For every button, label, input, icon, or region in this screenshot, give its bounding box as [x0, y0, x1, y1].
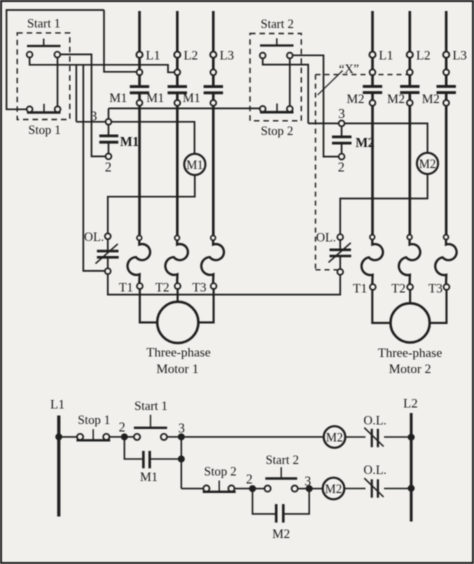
motor terminal circle under L1 (right) — [370, 284, 376, 290]
wire: jumper Start1-right to Stop1-right — [57, 58, 59, 107]
pushbutton Start 2 (NO) actuator — [260, 44, 294, 46]
svg-text:M2: M2 — [325, 482, 342, 496]
svg-text:2: 2 — [338, 160, 345, 175]
svg-text:M2: M2 — [419, 157, 436, 171]
dashed box X around starter 2 — [316, 74, 410, 76]
power line L1 (motor 1 phase) — [138, 11, 141, 52]
pushbutton station 2 dashed enclosure — [250, 34, 301, 121]
svg-text:Start 1: Start 1 — [27, 17, 60, 31]
terminal L2 lower (right) — [407, 69, 413, 75]
rung 2 wire stop2-node2' — [235, 488, 253, 490]
terminal below M1 contact on L2 — [174, 100, 180, 106]
wire: T2 to motor 2 — [409, 290, 411, 304]
power line L3 (motor 1 phase) — [212, 11, 215, 52]
svg-text:L3: L3 — [452, 48, 466, 63]
wire: T3 to motor 1 — [198, 289, 213, 322]
motor terminal circle under L2 — [175, 283, 181, 289]
rail L2 (ladder) — [410, 413, 413, 522]
terminal L2 upper — [174, 52, 180, 58]
wire L3 down to overload heater (right) — [445, 106, 448, 235]
junction L1-rung1 — [56, 434, 62, 440]
power line L2 (motor 2 phase) — [408, 11, 411, 52]
svg-text:2: 2 — [105, 159, 112, 174]
contact M1 on L1 (NO power contact) — [138, 75, 141, 86]
svg-text:T3: T3 — [428, 281, 442, 295]
overload contact O.L. rung 1 — [371, 429, 373, 447]
svg-text:“X”: “X” — [339, 62, 359, 76]
power line L2 (motor 1 phase) — [176, 11, 179, 52]
pushbutton Start 1 terminals — [27, 52, 33, 58]
rung 1 wire coil-OL — [345, 436, 365, 438]
motor terminal circle under L1 — [137, 283, 143, 289]
leader line for X — [318, 71, 343, 95]
wire: riser A from Start1-left wire down to node 3 line — [75, 65, 77, 122]
wire: Start1-right over and down to coil terminal 2 — [60, 54, 105, 156]
node 3 junction (ladder) — [178, 434, 184, 440]
coil M2 rung 1 (ladder) — [324, 426, 346, 448]
rung 2 wire left segment — [181, 488, 203, 490]
rung 2 wire node3'-coil — [309, 488, 323, 490]
motor terminal circle under L2 (right) — [407, 284, 413, 290]
coil M2 rung 2 (ladder) — [323, 478, 345, 500]
terminal L3 lower — [210, 69, 216, 75]
wire L3 to disconnect terminal (right) — [445, 58, 448, 70]
pilot device M2 (circle) — [417, 153, 438, 174]
svg-text:3: 3 — [338, 106, 345, 121]
svg-text:3: 3 — [178, 420, 185, 435]
terminal below M1 contact on L1 — [137, 100, 143, 106]
motor terminal circle under L3 — [211, 283, 217, 289]
rung 2 wire start2-node3' — [298, 488, 309, 490]
wire L1 to disconnect terminal (right) — [371, 58, 374, 70]
svg-text:3: 3 — [305, 473, 312, 488]
holding contact M1 branch wire — [124, 437, 143, 459]
rung 2 wire coil-OL — [344, 488, 365, 490]
pushbutton station 1 dashed enclosure — [17, 33, 70, 120]
holding contact M1 branch wire right — [150, 458, 182, 460]
overload heater element on L1 (right) — [370, 235, 375, 240]
overload OL2 heater contact — [337, 234, 343, 240]
svg-text:M1: M1 — [146, 91, 164, 105]
rung 1 wire OL-L2 — [384, 436, 411, 438]
svg-text:M1: M1 — [186, 158, 203, 172]
svg-text:Start 1: Start 1 — [134, 399, 167, 413]
svg-text:M1: M1 — [183, 91, 201, 105]
wire L2 to disconnect terminal — [176, 58, 179, 70]
wire: OL1 return to OL2 (long bottom horizontal) — [108, 274, 340, 295]
svg-text:L1: L1 — [50, 397, 64, 412]
terminal L2 upper (right) — [407, 52, 413, 58]
wire L2 down to overload heater — [176, 106, 179, 236]
svg-text:OL.: OL. — [84, 230, 104, 244]
pushbutton Stop 1 (NC) actuator — [27, 111, 61, 114]
rung 1 wire start1-node3 — [167, 436, 181, 438]
wire: M1 pilot bottom to OL1 top — [108, 175, 195, 234]
svg-text:L2: L2 — [403, 396, 417, 411]
svg-text:3: 3 — [90, 109, 97, 124]
coil M2 (contactor coil) — [332, 135, 352, 138]
rung 2 wire OL-L2 — [384, 488, 411, 490]
overload heater element on L1 — [137, 236, 142, 241]
wire: L1 feed from top line to Stop 1 (outer loop left) — [7, 10, 105, 109]
svg-text:Three-phase: Three-phase — [378, 345, 442, 360]
power line L3 (motor 2 phase) — [445, 11, 448, 52]
node 3 wire (control) to M1 pilot — [76, 121, 105, 123]
junction rung1-L2 — [408, 434, 414, 440]
contact M2 on L3 (NO power contact) — [445, 75, 448, 86]
overload contact O.L. rung 2 — [371, 479, 373, 497]
svg-text:L2: L2 — [416, 48, 430, 63]
svg-text:M2: M2 — [326, 431, 343, 445]
svg-text:2: 2 — [246, 472, 253, 487]
wire L3 down to overload heater — [212, 106, 215, 236]
wire: T2 to motor 1 — [177, 289, 179, 302]
rung 1 wire left segment — [59, 436, 77, 438]
pushbutton Stop 1 (ladder NC) — [77, 434, 83, 440]
terminal L3 upper — [210, 52, 216, 58]
wire: Start1-left to L2 tap (node runs right) — [30, 58, 175, 73]
terminal L3 lower (right) — [443, 69, 449, 75]
rung 2 wire node2'-start2 — [253, 488, 265, 490]
wire L1 down to overload heater — [138, 106, 141, 236]
power line L1 (motor 2 phase) — [371, 11, 374, 52]
holding contact M2 branch wire right — [283, 489, 309, 514]
wire: Start2-left down to node 3' line — [263, 58, 309, 123]
node 3' terminal — [339, 121, 345, 127]
pushbutton Stop 1 terminals — [27, 106, 33, 112]
coil M2 terminal 2 — [339, 154, 345, 160]
svg-text:T1: T1 — [353, 281, 367, 295]
terminal L3 upper (right) — [443, 52, 449, 58]
svg-text:Stop 2: Stop 2 — [261, 124, 294, 138]
pilot device M1 (circle) — [184, 154, 205, 175]
pushbutton Stop 2 (ladder NC) — [203, 485, 209, 491]
wire: interlock line from node 3 to Stop 2 (long horizontal) — [109, 107, 261, 109]
wire L1 down to overload heater (right) — [371, 106, 374, 235]
coil M1 terminal 2 — [106, 154, 112, 160]
svg-text:M2: M2 — [272, 527, 290, 541]
contact M1 on L2 (NO power contact) — [176, 75, 179, 86]
svg-text:O.L.: O.L. — [363, 463, 386, 477]
terminal below M2 contact on L1 — [370, 100, 376, 106]
svg-text:Stop 1: Stop 1 — [28, 123, 61, 137]
motor 1 (three-phase) — [157, 302, 198, 343]
overload heater element on L3 — [211, 236, 216, 241]
svg-text:M1: M1 — [120, 134, 139, 149]
svg-text:M2: M2 — [387, 92, 405, 106]
svg-text:L2: L2 — [184, 48, 198, 63]
overload heater element on L2 — [175, 236, 180, 241]
pushbutton Start 2 terminals — [260, 53, 266, 59]
wire L3 to disconnect terminal — [212, 58, 215, 70]
rung 1 wire node3-coil — [181, 436, 323, 438]
overload OL1 heater contact — [105, 233, 111, 239]
wire: riser B from Start1-left wire down to OL1 return — [83, 65, 105, 271]
svg-text:T2: T2 — [155, 281, 169, 295]
rail L1 (ladder) — [57, 416, 60, 517]
svg-text:Motor 1: Motor 1 — [156, 361, 198, 376]
terminal below M1 contact on L3 — [210, 100, 216, 106]
motor 2 (three-phase) — [391, 303, 430, 342]
motor terminal circle under L3 (right) — [444, 284, 450, 290]
contact M2 on L2 (NO power contact) — [408, 75, 411, 86]
wire L1 to disconnect terminal — [138, 58, 141, 70]
wire: M2 pilot bottom to OL2 top — [340, 174, 427, 234]
contact M2 on L1 (NO power contact) — [371, 75, 374, 86]
wire L2 down to overload heater (right) — [408, 106, 411, 235]
wire: Start2-right over and down to coil 2 terminal — [293, 55, 339, 156]
wire: node 3 down to rung 2 — [180, 437, 182, 489]
rung 1 wire stop1-node2 — [109, 436, 124, 438]
terminal L1 upper — [136, 52, 142, 58]
pushbutton Stop 2 terminals — [260, 106, 266, 112]
overload heater element on L3 (right) — [444, 235, 449, 240]
svg-text:T1: T1 — [119, 281, 133, 295]
svg-text:OL.: OL. — [316, 231, 336, 245]
svg-text:Stop 1: Stop 1 — [78, 413, 111, 427]
terminal L1 upper (right) — [369, 52, 375, 58]
svg-text:T2: T2 — [391, 281, 405, 295]
terminal L2 lower — [174, 69, 180, 75]
svg-text:Motor 2: Motor 2 — [389, 361, 431, 376]
wire: outer loop right drop to L1 tap — [104, 10, 137, 72]
pushbutton Stop 2 (NC) actuator — [260, 111, 294, 114]
junction rung2-L2 — [408, 485, 414, 491]
node 3' junction (ladder) — [306, 486, 312, 492]
wire: node 3 riser to interlock line — [108, 108, 110, 119]
junction node3-M1 branch — [178, 456, 184, 462]
svg-text:M1: M1 — [140, 470, 158, 484]
node 3' wire to M2 pilot — [308, 122, 339, 124]
svg-text:O.L.: O.L. — [363, 413, 386, 427]
contact M2 (ladder NO holding) — [275, 504, 278, 522]
svg-text:Stop 2: Stop 2 — [204, 464, 237, 478]
pushbutton Start 1 (ladder NO) — [134, 434, 140, 440]
node 2' junction (ladder) — [250, 486, 256, 492]
wire: T1 to motor 1 — [140, 289, 157, 322]
terminal L1 lower (right) — [370, 69, 376, 75]
terminal below M2 contact on L2 — [407, 100, 413, 106]
svg-text:M2: M2 — [422, 92, 440, 106]
node 2 junction (ladder) — [121, 434, 127, 440]
svg-text:M2: M2 — [347, 92, 365, 106]
rung 1 wire node2-start1 — [124, 436, 133, 438]
pushbutton Start 1 (NO) actuator — [27, 45, 61, 47]
contact M1 (ladder NO holding) — [142, 451, 145, 468]
holding contact M2 branch wire — [253, 489, 277, 514]
svg-text:L1: L1 — [379, 48, 393, 63]
contact M1 on L3 (NO power contact) — [212, 75, 215, 86]
svg-text:Start 2: Start 2 — [261, 17, 294, 31]
svg-text:Start 2: Start 2 — [266, 453, 299, 467]
svg-text:L1: L1 — [146, 48, 160, 63]
pushbutton Start 2 (ladder NO) — [265, 486, 271, 492]
svg-text:T3: T3 — [192, 281, 206, 295]
svg-text:L3: L3 — [220, 48, 234, 63]
svg-text:2: 2 — [119, 419, 126, 434]
wire: jumper Start2-right to Stop2-right — [289, 58, 291, 106]
wire: T1 to motor 2 — [372, 290, 391, 323]
svg-text:Three-phase: Three-phase — [146, 345, 210, 360]
terminal L1 lower — [137, 69, 143, 75]
coil M1 (contactor coil, NO-contact style) — [99, 134, 118, 137]
wire: T3 to motor 2 — [429, 290, 446, 323]
terminal below M2 contact on L3 — [443, 100, 449, 106]
node 3 terminal — [106, 119, 112, 125]
svg-text:M1: M1 — [109, 91, 127, 105]
overload heater element on L2 (right) — [407, 235, 412, 240]
wire L2 to disconnect terminal (right) — [408, 58, 411, 70]
